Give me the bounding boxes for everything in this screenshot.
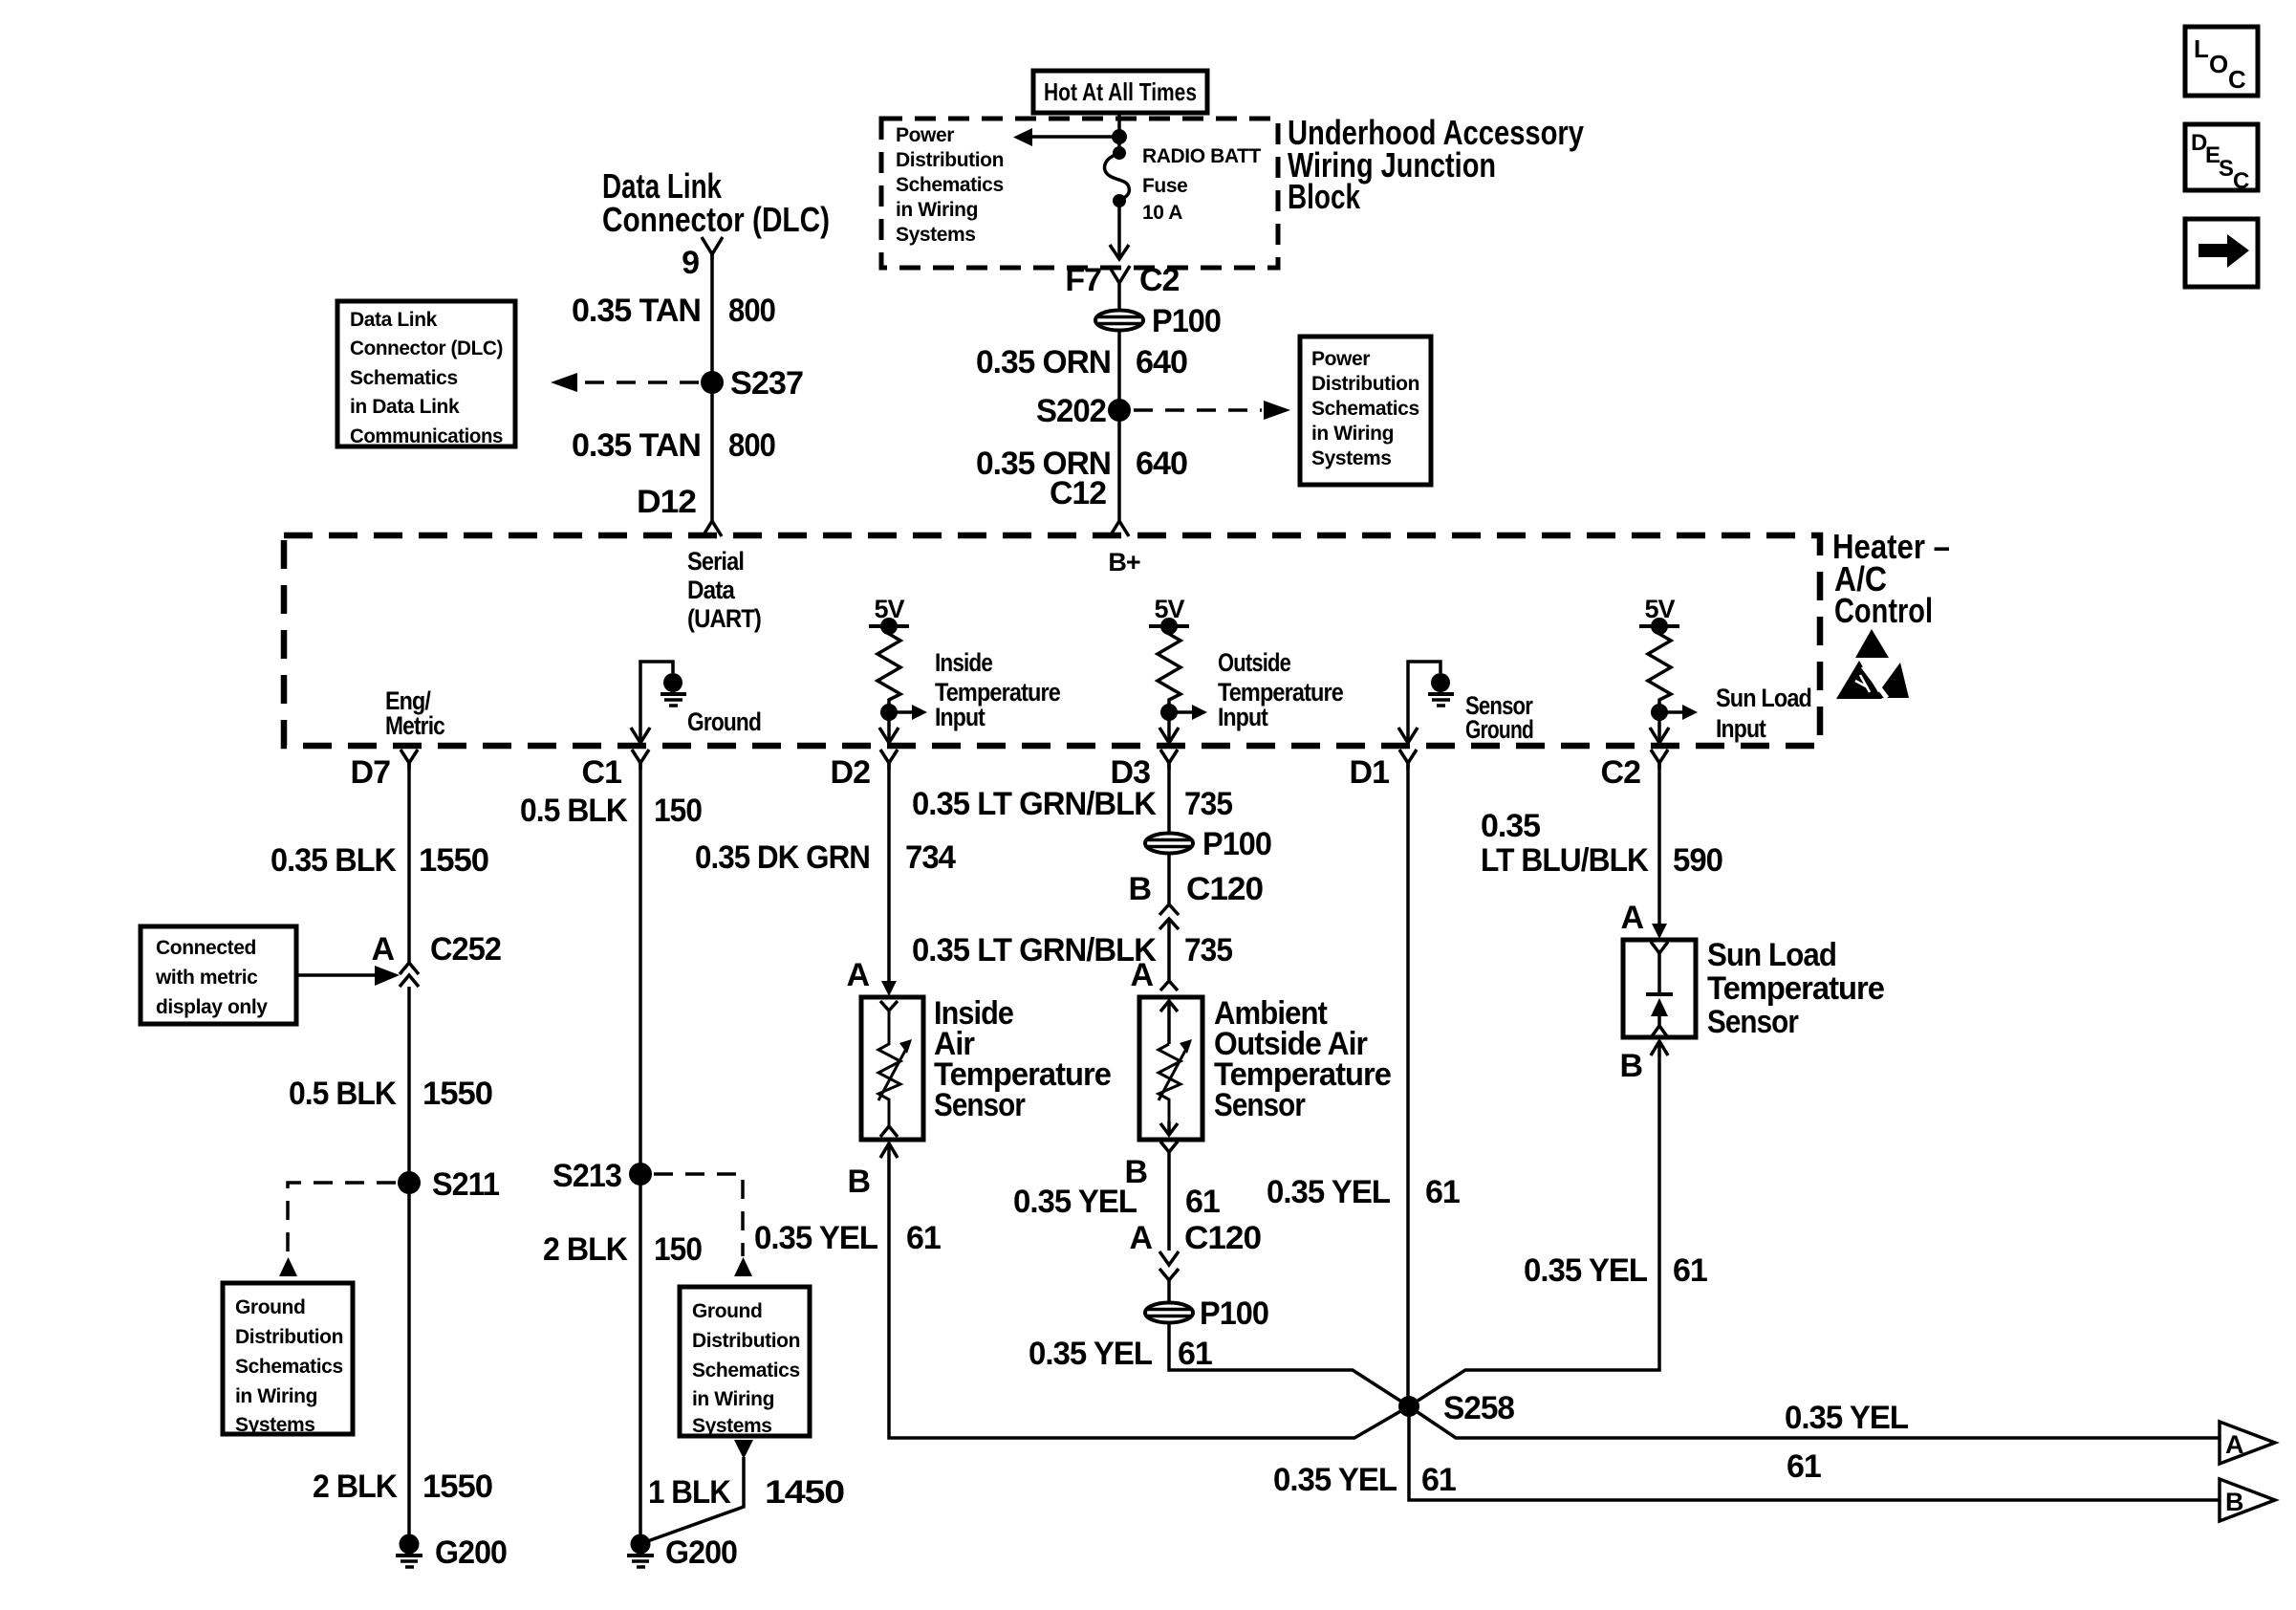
svg-text:A: A bbox=[2225, 1430, 2243, 1459]
label: 0.35 LT GRN/BLK | 735 (upper) bbox=[912, 786, 1232, 822]
pin D7 symbol bbox=[401, 750, 418, 770]
wire: 0.5 BLK 1550 from C252 to S211 bbox=[407, 987, 411, 1539]
svg-text:Distribution: Distribution bbox=[1311, 373, 1419, 395]
connector D12 pin symbol at module edge bbox=[703, 521, 722, 536]
svg-text:1550: 1550 bbox=[422, 1076, 492, 1112]
label: RADIO BATT Fuse 10 A bbox=[1142, 145, 1262, 224]
svg-text:Ground: Ground bbox=[235, 1296, 305, 1318]
Heater A/C Control module dashed box bbox=[284, 535, 1820, 746]
svg-text:in Wiring: in Wiring bbox=[1311, 423, 1394, 445]
svg-text:61: 61 bbox=[1421, 1462, 1456, 1498]
svg-text:61: 61 bbox=[1185, 1184, 1220, 1220]
connector pin 9 of DLC bbox=[702, 237, 723, 260]
node: junction dot to power distribution arrow bbox=[1112, 129, 1127, 144]
svg-text:Distribution: Distribution bbox=[692, 1330, 800, 1352]
component: Ambient Outside Air Temperature Sensor bbox=[1139, 997, 1202, 1140]
svg-text:9: 9 bbox=[682, 245, 699, 281]
wire: 0.35 DK GRN 734 from pin D2 to sensor pin A bbox=[887, 763, 891, 985]
arrowhead into sun load sensor bbox=[1652, 924, 1667, 939]
wire: 0.35 YEL 61 to output A bbox=[1409, 1406, 2220, 1438]
svg-text:C1: C1 bbox=[582, 754, 622, 791]
svg-text:B: B bbox=[2225, 1488, 2243, 1516]
svg-text:S211: S211 bbox=[432, 1166, 499, 1203]
svg-text:640: 640 bbox=[1136, 446, 1187, 482]
svg-text:Sun Load: Sun Load bbox=[1707, 937, 1836, 973]
svg-text:61: 61 bbox=[1425, 1174, 1460, 1210]
fuse RADIO BATT 10A bbox=[1105, 146, 1130, 207]
svg-text:D12: D12 bbox=[637, 484, 696, 520]
svg-text:2 BLK: 2 BLK bbox=[313, 1469, 398, 1505]
svg-text:LT BLU/BLK: LT BLU/BLK bbox=[1481, 842, 1649, 879]
svg-text:F7: F7 bbox=[1065, 262, 1101, 298]
svg-text:A: A bbox=[1129, 1220, 1152, 1256]
label: Ambient Outside Air Temperature Sensor bbox=[1214, 995, 1391, 1123]
label: 0.5 BLK | 1550 bbox=[289, 1076, 492, 1112]
svg-text:in Wiring: in Wiring bbox=[896, 199, 978, 221]
svg-text:0.35 ORN: 0.35 ORN bbox=[976, 344, 1111, 381]
connector symbol below ambient sensor bbox=[1160, 1142, 1178, 1251]
svg-text:590: 590 bbox=[1673, 842, 1722, 879]
svg-text:C: C bbox=[2233, 168, 2249, 194]
svg-text:150: 150 bbox=[654, 1231, 702, 1268]
pin C1 symbol bbox=[632, 750, 649, 770]
svg-text:61: 61 bbox=[1178, 1336, 1212, 1372]
svg-text:0.35 YEL: 0.35 YEL bbox=[1785, 1400, 1908, 1436]
svg-text:Input: Input bbox=[1218, 703, 1268, 731]
svg-text:S213: S213 bbox=[552, 1158, 621, 1194]
label: 0.35 YEL | 61 (ambient upper) bbox=[1013, 1184, 1220, 1220]
svg-text:Distribution: Distribution bbox=[235, 1326, 343, 1348]
wire: arrow to power distribution schematics (left) bbox=[1030, 135, 1119, 139]
svg-text:in Wiring: in Wiring bbox=[235, 1385, 317, 1407]
svg-text:61: 61 bbox=[1673, 1252, 1707, 1289]
svg-text:C252: C252 bbox=[430, 931, 501, 968]
wire: from C120 to P100 (lower) bbox=[1167, 1280, 1171, 1302]
svg-text:display only: display only bbox=[156, 996, 268, 1018]
text: Power Distribution Schematics in Wiring Systems (inside junction block) bbox=[896, 124, 1004, 246]
svg-text:S: S bbox=[2219, 156, 2234, 182]
svg-text:Systems: Systems bbox=[235, 1414, 315, 1436]
splice S213 bbox=[629, 1163, 652, 1186]
svg-text:61: 61 bbox=[906, 1220, 941, 1256]
svg-text:B: B bbox=[1619, 1048, 1642, 1084]
connector P100 (D3 upper) bbox=[1145, 834, 1193, 854]
svg-text:735: 735 bbox=[1184, 786, 1232, 822]
svg-text:Communications: Communications bbox=[350, 425, 503, 447]
label: 1 BLK | 1450 bbox=[648, 1474, 844, 1511]
svg-text:0.35 DK GRN: 0.35 DK GRN bbox=[695, 839, 870, 876]
title: Data Link Connector (DLC) bbox=[602, 166, 830, 239]
svg-text:Input: Input bbox=[1716, 714, 1766, 743]
net label: Eng/Metric bbox=[385, 686, 445, 740]
net label: Sun Load Input bbox=[1716, 684, 1811, 743]
arrow legend box (top right) bbox=[2185, 219, 2258, 287]
svg-text:B+: B+ bbox=[1108, 548, 1139, 577]
reference box: Ground Distribution Schematics in Wiring Systems (left) bbox=[223, 1283, 353, 1436]
output arrow A bbox=[2220, 1422, 2275, 1464]
svg-text:RADIO BATT: RADIO BATT bbox=[1142, 145, 1262, 167]
svg-text:0.35 YEL: 0.35 YEL bbox=[1013, 1184, 1137, 1220]
svg-text:Ground: Ground bbox=[1465, 715, 1533, 744]
Underhood Accessory Wiring Junction Block dashed box bbox=[881, 119, 1278, 268]
wire: 0.35 YEL 61 from pin D1 to S258 bbox=[1406, 763, 1410, 1406]
svg-text:with metric: with metric bbox=[155, 967, 258, 989]
connector F7/C2 pin symbol bbox=[1109, 266, 1130, 312]
svg-text:O: O bbox=[2209, 50, 2228, 78]
svg-text:1 BLK: 1 BLK bbox=[648, 1474, 731, 1511]
label: 0.35 YEL | 61 (D1) bbox=[1267, 1174, 1460, 1210]
reference box: Ground Distribution Schematics in Wiring Systems (right) bbox=[680, 1287, 810, 1437]
output arrow B bbox=[2220, 1479, 2275, 1521]
svg-text:640: 640 bbox=[1136, 344, 1187, 381]
arrowhead into sensor bbox=[881, 981, 897, 996]
arrow up out of sensor pin B bbox=[880, 1143, 898, 1158]
splice S211 bbox=[398, 1171, 421, 1194]
svg-text:Inside: Inside bbox=[935, 648, 993, 677]
label: 0.35 BLK | 1550 bbox=[271, 842, 488, 879]
svg-text:D1: D1 bbox=[1350, 754, 1390, 791]
svg-text:Power: Power bbox=[896, 124, 954, 146]
pin C2 symbol bbox=[1651, 750, 1668, 770]
label: 0.35 YEL | 61 (inside air sensor) bbox=[754, 1220, 941, 1256]
wire: 0.35 YEL 61 from sun load sensor to S258 bbox=[1409, 1041, 1659, 1406]
svg-text:150: 150 bbox=[654, 793, 702, 829]
label: 0.35 DK GRN | 734 bbox=[695, 839, 956, 876]
svg-text:A: A bbox=[1130, 957, 1153, 993]
connector C120 inline symbol (lower) bbox=[1159, 1251, 1179, 1280]
wire: 0.35 ORN 640 from P100 to C12 bbox=[1117, 331, 1121, 516]
svg-text:A: A bbox=[371, 931, 394, 968]
splice S258 bbox=[1398, 1396, 1419, 1417]
net label: Outside Temperature Input bbox=[1218, 648, 1344, 731]
dashed reference arrow from S202 bbox=[1134, 408, 1262, 412]
label: 0.35 / LT BLU/BLK | 590 bbox=[1481, 808, 1722, 879]
svg-text:1550: 1550 bbox=[422, 1469, 492, 1505]
svg-text:(UART): (UART) bbox=[687, 604, 761, 633]
svg-text:Power: Power bbox=[1311, 348, 1370, 370]
arrow up out of sun load sensor pin B bbox=[1651, 1041, 1668, 1055]
svg-text:800: 800 bbox=[728, 427, 775, 464]
wire: 0.35 LT BLU/BLK 590 from pin C2 to sensor bbox=[1657, 763, 1661, 925]
svg-text:Serial: Serial bbox=[687, 547, 744, 576]
svg-text:Systems: Systems bbox=[692, 1415, 772, 1437]
svg-text:B: B bbox=[1128, 871, 1151, 907]
label: 0.35 ORN | 640 (upper) bbox=[976, 344, 1187, 381]
LOC legend box (top right) bbox=[2185, 27, 2258, 96]
wire: 0.35 YEL 61 from inside air sensor to S258 bbox=[889, 1143, 1409, 1438]
svg-text:D2: D2 bbox=[831, 754, 871, 791]
svg-text:in Wiring: in Wiring bbox=[692, 1388, 774, 1410]
svg-text:C: C bbox=[2228, 65, 2246, 94]
dashed reference link from S213 to ground distribution box bbox=[654, 1174, 743, 1256]
svg-text:B: B bbox=[847, 1164, 870, 1200]
dashed reference arrow from S237 to DLC schematics box bbox=[579, 381, 699, 384]
wire: 0.35 YEL 61 from P100 to S258 bbox=[1169, 1323, 1409, 1406]
label: 0.35 ORN | 640 (lower) bbox=[976, 446, 1187, 482]
ESD sensitive device symbol bbox=[1836, 629, 1909, 699]
svg-text:0.35 YEL: 0.35 YEL bbox=[1273, 1462, 1397, 1498]
wire: 0.35 TAN 800 from DLC to S237 bbox=[710, 250, 714, 521]
svg-text:0.5 BLK: 0.5 BLK bbox=[520, 793, 628, 829]
svg-text:S237: S237 bbox=[730, 365, 803, 402]
splice S202 bbox=[1108, 399, 1131, 422]
svg-text:Data Link: Data Link bbox=[350, 309, 438, 331]
svg-text:C120: C120 bbox=[1184, 1220, 1261, 1256]
svg-text:0.35 YEL: 0.35 YEL bbox=[1524, 1252, 1647, 1289]
svg-text:P100: P100 bbox=[1200, 1295, 1268, 1332]
pin D1 symbol bbox=[1399, 750, 1417, 770]
svg-text:0.35 YEL: 0.35 YEL bbox=[1267, 1174, 1390, 1210]
svg-text:735: 735 bbox=[1184, 932, 1232, 968]
svg-text:C12: C12 bbox=[1050, 475, 1106, 511]
wire: 0.35 BLK 1550 from pin D7 to C252 bbox=[407, 763, 411, 962]
svg-text:Sensor: Sensor bbox=[1214, 1087, 1306, 1123]
wire: 0.5 BLK 150 from pin C1 to S213 bbox=[639, 763, 642, 1539]
internal 5V pull-up resistor for pin C2 bbox=[1639, 595, 1698, 743]
svg-text:1450: 1450 bbox=[765, 1474, 844, 1511]
svg-text:Sensor: Sensor bbox=[1707, 1004, 1799, 1040]
svg-text:A: A bbox=[846, 957, 869, 993]
label: 0.5 BLK | 150 bbox=[520, 793, 702, 829]
svg-text:Connector (DLC): Connector (DLC) bbox=[350, 337, 503, 359]
svg-text:Input: Input bbox=[935, 703, 986, 731]
svg-text:Outside: Outside bbox=[1218, 648, 1291, 677]
wire: down to C120 bbox=[1167, 854, 1171, 904]
svg-text:C2: C2 bbox=[1601, 754, 1641, 791]
connector C12 pin symbol at module edge bbox=[1110, 516, 1129, 536]
svg-text:734: 734 bbox=[905, 839, 956, 876]
internal ground for pin C1 bbox=[631, 662, 686, 743]
title: Heater - A/C Control bbox=[1832, 527, 1950, 630]
label: Sun Load Temperature Sensor bbox=[1707, 937, 1884, 1040]
internal 5V pull-up resistor for pin D2 bbox=[869, 595, 927, 743]
svg-text:in Data Link: in Data Link bbox=[350, 396, 460, 418]
svg-text:C120: C120 bbox=[1186, 871, 1263, 907]
connector P100 (grommet) bbox=[1095, 311, 1143, 331]
label: 0.35 TAN | 800 (upper) bbox=[572, 293, 775, 329]
svg-text:Distribution: Distribution bbox=[896, 149, 1004, 171]
reference box: Data Link Connector (DLC) Schematics in Data Link Communications bbox=[337, 301, 515, 447]
pin D3 symbol bbox=[1160, 750, 1178, 770]
ground G200 (left) bbox=[396, 1534, 422, 1568]
svg-text:D7: D7 bbox=[351, 754, 391, 791]
label: 2 BLK | 1550 bbox=[313, 1469, 492, 1505]
component: Sun Load Temperature Sensor bbox=[1623, 940, 1696, 1037]
arrow up into ambient sensor (pin A side) bbox=[1160, 919, 1178, 990]
splice S237 bbox=[701, 371, 724, 394]
label: 0.35 YEL | 61 (sun load) bbox=[1524, 1252, 1707, 1289]
connector C252 inline symbol bbox=[400, 963, 419, 987]
svg-text:P100: P100 bbox=[1152, 303, 1221, 339]
svg-text:1550: 1550 bbox=[419, 842, 488, 879]
title: Underhood Accessory Wiring Junction Block bbox=[1288, 113, 1584, 216]
net label: Sensor Ground bbox=[1465, 691, 1533, 744]
svg-text:Connector (DLC): Connector (DLC) bbox=[602, 200, 830, 239]
label: 2 BLK | 150 bbox=[543, 1231, 702, 1268]
arrow out of ground distribution box bottom bbox=[734, 1440, 753, 1459]
svg-text:S202: S202 bbox=[1036, 393, 1106, 429]
label: 0.35 LT GRN/BLK | 735 (lower) bbox=[912, 932, 1232, 968]
svg-text:Schematics: Schematics bbox=[1311, 398, 1419, 420]
label: 0.35 YEL / 61 (output A) bbox=[1785, 1400, 1908, 1485]
net label: Serial Data (UART) bbox=[687, 547, 761, 633]
svg-text:L: L bbox=[2194, 34, 2209, 63]
component: Inside Air Temperature Sensor bbox=[861, 997, 923, 1140]
arrow from reference box to C252 bbox=[296, 973, 375, 977]
label: Inside Air Temperature Sensor bbox=[934, 995, 1111, 1123]
svg-text:0.35 LT GRN/BLK: 0.35 LT GRN/BLK bbox=[912, 932, 1157, 968]
label: 0.35 YEL | 61 (output B) bbox=[1273, 1462, 1456, 1498]
svg-text:S258: S258 bbox=[1443, 1390, 1514, 1426]
svg-text:Fuse: Fuse bbox=[1142, 175, 1187, 197]
svg-text:Metric: Metric bbox=[385, 711, 445, 740]
svg-text:800: 800 bbox=[728, 293, 775, 329]
svg-text:C2: C2 bbox=[1139, 262, 1180, 298]
svg-text:0.35 TAN: 0.35 TAN bbox=[572, 293, 701, 329]
svg-text:0.5 BLK: 0.5 BLK bbox=[289, 1076, 397, 1112]
svg-text:Schematics: Schematics bbox=[692, 1360, 800, 1382]
svg-text:G200: G200 bbox=[435, 1534, 507, 1571]
svg-text:Schematics: Schematics bbox=[235, 1356, 343, 1378]
internal ground for pin D1 (sensor ground) bbox=[1398, 662, 1454, 743]
svg-text:0.35 TAN: 0.35 TAN bbox=[572, 427, 701, 464]
reference box: Connected with metric display only bbox=[141, 926, 296, 1024]
svg-text:Schematics: Schematics bbox=[350, 367, 458, 389]
wire: 0.35 YEL 61 to output B bbox=[1409, 1406, 2220, 1500]
pin D2 symbol bbox=[880, 750, 898, 770]
ground G200 (right) bbox=[627, 1534, 654, 1568]
svg-text:0.35 LT GRN/BLK: 0.35 LT GRN/BLK bbox=[912, 786, 1157, 822]
svg-text:Systems: Systems bbox=[896, 224, 976, 246]
wire: battery feed from Hot At All Times into junction block bbox=[1117, 113, 1121, 153]
svg-text:61: 61 bbox=[1787, 1448, 1821, 1485]
DESC legend box (top right) bbox=[2185, 124, 2258, 194]
svg-text:2 BLK: 2 BLK bbox=[543, 1231, 628, 1268]
svg-text:Hot At All Times: Hot At All Times bbox=[1044, 77, 1197, 106]
dashed reference link from S211 to ground distribution box bbox=[288, 1183, 396, 1256]
net label: Inside Temperature Input bbox=[935, 648, 1061, 731]
connector P100 (D3 lower) bbox=[1145, 1303, 1193, 1323]
svg-text:Data: Data bbox=[687, 576, 736, 604]
svg-text:Block: Block bbox=[1288, 177, 1361, 216]
svg-text:Sun Load: Sun Load bbox=[1716, 684, 1811, 712]
internal 5V pull-up resistor for pin D3 bbox=[1149, 595, 1207, 743]
svg-text:P100: P100 bbox=[1202, 826, 1271, 862]
Hot At All Times box bbox=[1033, 71, 1207, 113]
wire: 1 BLK 1450 from box to G200 bbox=[642, 1457, 744, 1543]
svg-text:0.35: 0.35 bbox=[1481, 808, 1540, 844]
label: 0.35 YEL | 61 (D3 bottom) bbox=[1029, 1336, 1212, 1372]
wire: fuse output down to junction block edge bbox=[1117, 201, 1121, 258]
reference box: Power Distribution Schematics in Wiring Systems bbox=[1300, 337, 1431, 485]
wire: 0.35 LT GRN/BLK 735 from pin D3 to P100 bbox=[1167, 763, 1171, 833]
label: 0.35 TAN | 800 (lower) bbox=[572, 427, 775, 464]
connector C120 inline symbol (upper) bbox=[1159, 904, 1179, 929]
svg-text:10 A: 10 A bbox=[1142, 202, 1182, 224]
svg-text:Schematics: Schematics bbox=[896, 174, 1004, 196]
svg-text:0.35 YEL: 0.35 YEL bbox=[754, 1220, 877, 1256]
svg-text:G200: G200 bbox=[665, 1534, 737, 1571]
svg-text:Systems: Systems bbox=[1311, 447, 1392, 469]
svg-text:Control: Control bbox=[1834, 591, 1933, 630]
svg-text:Temperature: Temperature bbox=[1707, 970, 1884, 1007]
svg-text:0.35 BLK: 0.35 BLK bbox=[271, 842, 397, 879]
svg-text:Connected: Connected bbox=[156, 937, 256, 959]
svg-text:0.35 YEL: 0.35 YEL bbox=[1029, 1336, 1152, 1372]
svg-text:Ground: Ground bbox=[687, 707, 761, 736]
arrow: open arrowhead at block exit bbox=[1110, 245, 1129, 259]
svg-text:A: A bbox=[1620, 900, 1643, 936]
svg-text:Ground: Ground bbox=[692, 1300, 762, 1322]
svg-text:Sensor: Sensor bbox=[934, 1087, 1026, 1123]
